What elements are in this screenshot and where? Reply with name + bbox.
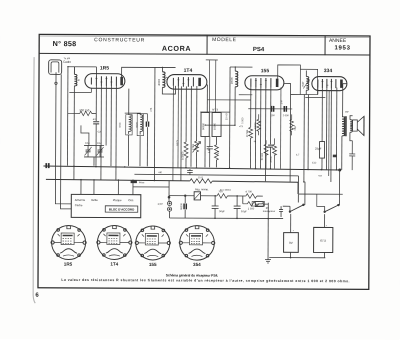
svg-text:10000: 10000 xyxy=(213,122,216,130)
svg-text:+80: +80 xyxy=(158,171,163,174)
svg-text:BLOC D'ACCORD: BLOC D'ACCORD xyxy=(109,207,135,211)
svg-text:N° 858: N° 858 xyxy=(53,39,77,48)
svg-text:ANNEE: ANNEE xyxy=(329,38,347,44)
svg-text:Grille: Grille xyxy=(91,198,98,202)
svg-text:1953: 1953 xyxy=(334,45,350,51)
svg-text:Rég. miniat.: Rég. miniat. xyxy=(195,187,209,191)
svg-text:CA1: CA1 xyxy=(85,142,90,145)
svg-text:POT: POT xyxy=(302,81,305,87)
svg-text:334: 334 xyxy=(324,68,333,74)
svg-text:1 M: 1 M xyxy=(280,100,283,104)
svg-text:9V: 9V xyxy=(289,241,293,245)
svg-text:67,5: 67,5 xyxy=(320,239,326,243)
svg-text:1,5V: 1,5V xyxy=(157,202,163,206)
svg-text:5000: 5000 xyxy=(136,122,139,128)
svg-text:473: 473 xyxy=(150,107,153,112)
svg-text:100 150: 100 150 xyxy=(79,108,90,112)
svg-text:150: 150 xyxy=(271,114,276,117)
svg-text:1R5: 1R5 xyxy=(100,65,109,71)
svg-text:R173: R173 xyxy=(176,139,179,145)
svg-text:100000: 100000 xyxy=(182,151,185,160)
svg-text:MODELE: MODELE xyxy=(212,37,237,43)
svg-text:10 HO: 10 HO xyxy=(225,113,228,120)
svg-text:155: 155 xyxy=(149,262,157,267)
svg-text:Cadre: Cadre xyxy=(75,203,83,207)
svg-text:Osc.: Osc. xyxy=(128,198,134,202)
svg-text:1T4: 1T4 xyxy=(184,68,193,74)
svg-text:N°73: N°73 xyxy=(212,108,218,112)
svg-text:R: R xyxy=(78,79,80,82)
svg-text:155: 155 xyxy=(261,68,270,74)
svg-text:+67: +67 xyxy=(318,175,323,178)
svg-text:2 000: 2 000 xyxy=(283,114,290,117)
svg-text:4 700: 4 700 xyxy=(245,190,252,194)
svg-text:1 500: 1 500 xyxy=(248,207,255,211)
svg-text:Cadre: Cadre xyxy=(63,60,72,64)
svg-text:10 MΩ: 10 MΩ xyxy=(246,130,249,138)
svg-text:1T4: 1T4 xyxy=(110,262,118,267)
svg-text:30000: 30000 xyxy=(180,203,183,210)
svg-text:2 MΩ: 2 MΩ xyxy=(192,144,195,150)
svg-text:1 MΩ: 1 MΩ xyxy=(208,147,211,153)
svg-text:354: 354 xyxy=(193,262,201,267)
svg-text:10µF: 10µF xyxy=(241,209,247,213)
svg-text:50000: 50000 xyxy=(202,122,205,130)
svg-text:20000: 20000 xyxy=(231,77,234,85)
svg-text:Prise: Prise xyxy=(139,181,145,184)
svg-text:PS4: PS4 xyxy=(253,47,265,53)
svg-text:Antenne: Antenne xyxy=(75,198,86,202)
svg-text:1R5: 1R5 xyxy=(64,262,73,267)
svg-text:CA2: CA2 xyxy=(97,142,102,145)
svg-text:HP: HP xyxy=(345,111,349,114)
svg-text:470 k: 470 k xyxy=(270,156,273,163)
svg-text:C12: C12 xyxy=(312,162,317,165)
svg-text:Plaque: Plaque xyxy=(113,198,122,202)
svg-text:Schéma général du récepteur PS: Schéma général du récepteur PS4. xyxy=(166,273,219,277)
svg-text:25µF: 25µF xyxy=(315,147,322,151)
svg-text:46µF: 46µF xyxy=(294,124,297,130)
svg-text:50 000: 50 000 xyxy=(261,152,264,160)
svg-text:4x1 100x1: 4x1 100x1 xyxy=(220,189,232,192)
svg-text:4•: 4• xyxy=(254,140,256,143)
svg-text:OSC: OSC xyxy=(119,122,122,127)
svg-text:Tu j44: Tu j44 xyxy=(63,57,70,60)
svg-text:15 Ω: 15 Ω xyxy=(198,176,203,179)
svg-text:30000: 30000 xyxy=(254,122,257,129)
svg-text:50µF: 50µF xyxy=(219,209,225,213)
svg-text:CONSTRUCTEUR: CONSTRUCTEUR xyxy=(94,37,145,43)
svg-text:1 000: 1 000 xyxy=(241,117,244,124)
svg-text:Interrupteur: Interrupteur xyxy=(263,210,276,213)
svg-text:ACORA: ACORA xyxy=(162,44,191,53)
svg-text:40000: 40000 xyxy=(158,78,161,86)
